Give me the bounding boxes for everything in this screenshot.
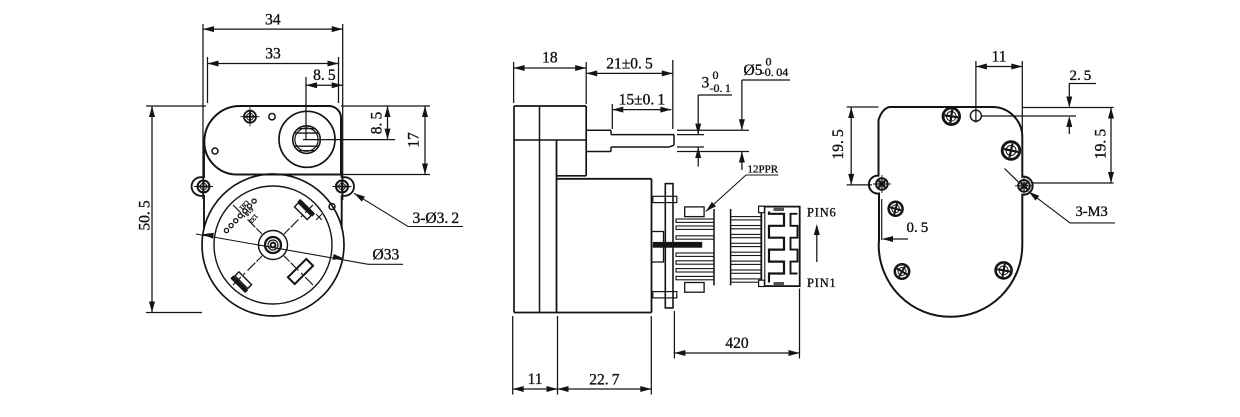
plus marker [313, 211, 324, 222]
extension line bottom (50.5) [146, 312, 202, 314]
shaft D-flat bottom [295, 145, 318, 147]
ext top edge right (19.5R/2.5) [1022, 107, 1113, 109]
dimension 19.5 left [850, 107, 852, 185]
encoder codewheel bottom tab [685, 283, 704, 293]
left side flat above ear [203, 142, 205, 179]
screw on housing top-left [241, 107, 260, 126]
ext ear centerline right [1032, 182, 1114, 184]
connector top tab [759, 206, 765, 213]
svg-text:3-M3: 3-M3 [1076, 204, 1108, 220]
extension line housing bottom right [342, 174, 430, 176]
dimension 22.7 bottom [558, 388, 652, 390]
extension line 33 left [207, 57, 209, 103]
connector dark block bottom [774, 282, 785, 285]
dimension 18 [514, 67, 587, 69]
motor body side view [557, 178, 652, 180]
ext line 3 bottom [677, 146, 704, 148]
commutation pin holes row [224, 228, 228, 232]
gearbox top edge [514, 105, 586, 107]
svg-text:50. 5: 50. 5 [137, 200, 154, 230]
right ear M3 screw [1015, 177, 1033, 195]
dimension 17 right [424, 106, 426, 175]
ext ear centerline left [847, 184, 872, 186]
dimension 50.5 height [151, 106, 153, 313]
dimension 21 +-0.5 [586, 72, 673, 74]
motor inner circle [214, 186, 332, 304]
svg-text:12PPR: 12PPR [748, 164, 779, 176]
output boss circle [279, 111, 335, 167]
connector contact comb big [769, 212, 784, 283]
ext screw centerline 2.5 [982, 115, 1077, 117]
center spokes [284, 256, 290, 262]
left ear M3 screw [873, 175, 891, 193]
gearbox right edge [585, 106, 587, 176]
gearbox left edge [513, 106, 515, 313]
dimension 15 +-0.1 [612, 109, 671, 111]
gearbox housing outline [204, 106, 341, 175]
svg-text:2. 5: 2. 5 [1070, 68, 1092, 84]
right ear bump [342, 177, 354, 196]
svg-text:0. 5: 0. 5 [907, 220, 929, 236]
svg-text:PIN6: PIN6 [807, 206, 837, 220]
ext line dia5 bottom [677, 151, 749, 153]
extension line top edge left [146, 105, 206, 107]
ext bottom motor right [650, 316, 652, 395]
svg-text:420: 420 [725, 335, 749, 352]
connector contact comb small [791, 214, 798, 274]
svg-text:-0. 1: -0. 1 [710, 81, 731, 95]
shaft centerline right extension [303, 139, 395, 141]
plate screw bottom [653, 292, 677, 298]
shaft D-flat top [295, 132, 318, 134]
svg-text:19. 5: 19. 5 [830, 129, 847, 159]
extension line 33 right [338, 57, 340, 103]
connector housing [761, 207, 799, 287]
dimension 33 body width [208, 63, 339, 65]
ext line dia5 top [677, 129, 749, 131]
wire leads [731, 217, 763, 220]
ext top edge left [847, 106, 879, 108]
right ear screw 3.2 hole [333, 177, 352, 196]
small hole left [212, 148, 218, 154]
svg-text:0: 0 [713, 68, 719, 82]
extension line 8.5 top (shaft center) [305, 77, 307, 140]
right side flat below ear [341, 195, 343, 229]
svg-text:8. 5: 8. 5 [313, 67, 336, 84]
pin direction arrow [816, 232, 818, 262]
dimension 3 -0.1 [697, 95, 699, 135]
diagonal centerlines [291, 263, 314, 286]
connector dark block top [774, 208, 785, 211]
ext 420 right [799, 289, 801, 359]
svg-text:17: 17 [406, 132, 423, 148]
ext 21/15 right [672, 60, 674, 129]
dimension 8.5 right [387, 106, 389, 140]
ext line 3 top [677, 134, 704, 136]
output shaft flat section [611, 134, 674, 136]
svg-text:34: 34 [265, 12, 281, 29]
rear screw left [889, 202, 903, 216]
svg-text:15±0. 1: 15±0. 1 [619, 91, 666, 108]
svg-text:PIN1: PIN1 [807, 276, 837, 290]
svg-text:8. 5: 8. 5 [369, 112, 386, 135]
right side flat above ear [341, 175, 343, 179]
0.5 offset inner line [881, 199, 883, 240]
terminal rectangle bottom-right [288, 259, 313, 284]
ext 18 left [513, 62, 515, 103]
encoder codewheel tab (12PPR target) [685, 207, 704, 217]
output shaft boss [586, 129, 611, 131]
motor outer circle [202, 174, 344, 316]
ext bottom left edge [512, 316, 514, 395]
extension line x=203 (34 left) [202, 24, 204, 199]
codewheel right line [713, 209, 715, 285]
svg-text:11: 11 [992, 49, 1007, 66]
svg-text:19. 5: 19. 5 [1093, 129, 1110, 159]
codewheel slats [676, 219, 714, 222]
dimension dia5 -0.04 [741, 80, 743, 130]
gearbox internal horizontal [514, 139, 586, 141]
shaft chord top [298, 128, 314, 130]
shaft chord bottom [298, 150, 314, 152]
svg-text:3: 3 [702, 75, 710, 92]
motor center shaft circles [259, 231, 288, 260]
motor rear bearing boss [652, 232, 664, 263]
shaft outer circle [293, 126, 321, 154]
small hole top [269, 114, 275, 120]
ext bottom motor left [557, 316, 559, 395]
plate screw top [653, 196, 677, 202]
dimension 11 bottom [513, 388, 558, 390]
dimension 34 overall width [203, 28, 343, 30]
svg-text:21±0. 5: 21±0. 5 [606, 56, 653, 73]
motor face marking text [236, 198, 262, 224]
M3 hole diagonal tick [1005, 169, 1019, 182]
svg-text:18: 18 [542, 50, 558, 67]
connector bottom tab [759, 280, 765, 286]
leader 3-M3 [1029, 192, 1115, 223]
left ear bump [192, 177, 204, 196]
svg-text:22. 7: 22. 7 [589, 372, 619, 389]
solder lug top-right [293, 199, 315, 221]
left side flat below ear [203, 195, 205, 229]
extension line x=342.7 (34 right) [342, 24, 344, 200]
rear screw bottom-right [996, 262, 1012, 278]
ext 11 left through hole [975, 61, 977, 123]
svg-text:-0. 04: -0. 04 [761, 65, 788, 79]
gearbox internal vertical [539, 106, 541, 313]
rear screw upper-middle [1002, 142, 1020, 160]
wire comb spine [730, 209, 732, 285]
motor rear shaft hub (dark) [653, 242, 702, 248]
encoder mount plate [665, 184, 673, 308]
rear plain hole [970, 110, 981, 121]
connector inner wall [764, 207, 766, 287]
dimension 0.5 [883, 238, 908, 240]
shaft inner circle [295, 128, 318, 151]
dimension 19.5 right [1110, 108, 1112, 184]
svg-text:33: 33 [265, 46, 281, 63]
ext 15 left [611, 104, 613, 129]
ext 420 left [673, 311, 675, 359]
label 12PPR [706, 175, 779, 212]
dimension 8.5 top [306, 84, 343, 86]
dimension 11 rear [976, 66, 1022, 68]
leader 3-dia3.2 [354, 193, 463, 226]
rear body outline [869, 107, 1033, 317]
left ear screw 3.2 hole [194, 177, 213, 196]
bottom edge [514, 312, 652, 314]
solder lug bottom-left [230, 271, 252, 293]
dimension 420 wire length [674, 352, 799, 354]
ext 18/21 shared [585, 62, 587, 104]
svg-text:3-Ø3. 2: 3-Ø3. 2 [413, 210, 460, 227]
svg-text:11: 11 [528, 371, 543, 388]
dimension diameter 33 [196, 234, 403, 264]
ext 11 right [1021, 61, 1023, 136]
small hole on motor rim [329, 204, 335, 210]
dimension 2.5 [1069, 83, 1096, 85]
svg-text:Ø33: Ø33 [373, 247, 400, 264]
extension line top edge right [341, 105, 430, 107]
gearbox bottom-right edge [557, 175, 587, 177]
rear screw top [943, 108, 960, 125]
rear screw bottom-left [894, 263, 910, 279]
